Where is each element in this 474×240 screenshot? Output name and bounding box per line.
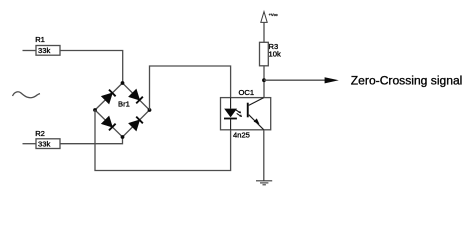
bridge diode D3 bottom-left (left node to bottom node) xyxy=(102,116,116,130)
OC1 LED cathode bar xyxy=(224,118,237,120)
svg-text:33k: 33k xyxy=(38,46,50,55)
power supply +Vcc symbol xyxy=(261,12,278,23)
OC1 LED cathode lead inside box xyxy=(230,119,232,130)
wire R3 to OC1 collector through junction xyxy=(263,66,265,98)
bridge diode D2 top-right (top node to right node) xyxy=(129,89,143,103)
bridge rectifier Br1 diamond wires xyxy=(95,83,150,137)
resistor R2 xyxy=(35,129,60,149)
bridge diode D1 top-left (left node to top node) xyxy=(102,90,116,104)
wire OC1 emitter to ground xyxy=(263,130,265,181)
svg-text:OC1: OC1 xyxy=(239,88,255,97)
svg-text:Zero-Crossing signal: Zero-Crossing signal xyxy=(351,74,463,88)
svg-text:R2: R2 xyxy=(35,129,45,138)
OC1 LED anode lead inside box xyxy=(230,98,232,109)
wire +Vcc to R3 xyxy=(263,22,265,42)
node dot bridge top xyxy=(121,81,125,85)
node dot bridge left xyxy=(93,108,97,112)
resistor R1 xyxy=(35,35,60,55)
OC1 phototransistor collector lead xyxy=(249,98,264,106)
OC1 emitter arrowhead xyxy=(254,118,260,124)
OC1 LED triangle xyxy=(224,109,237,118)
node dot bridge bottom xyxy=(121,135,125,139)
OC1 light emission arrow 1 xyxy=(236,110,241,114)
svg-text:R1: R1 xyxy=(35,35,45,44)
svg-text:Br1: Br1 xyxy=(118,100,130,109)
AC source V1 tilde symbol xyxy=(13,92,41,98)
ground symbol xyxy=(256,181,272,185)
OC1 phototransistor base bar xyxy=(247,103,249,118)
optocoupler OC1 body box xyxy=(221,98,271,130)
wire R1 to bridge top node xyxy=(60,51,123,84)
resistor R3 xyxy=(260,42,281,66)
node dot bridge right xyxy=(148,108,152,112)
wire R2 to bridge bottom node xyxy=(60,137,123,144)
bridge diode D4 bottom-right (bottom node to right node) xyxy=(129,117,143,131)
svg-text:4n25: 4n25 xyxy=(233,131,250,140)
wire R2 left lead xyxy=(23,143,37,145)
OC1 light emission arrow 2 xyxy=(237,113,242,117)
junction node dot output xyxy=(262,78,266,82)
svg-text:10k: 10k xyxy=(269,49,281,58)
svg-text:+Vcc: +Vcc xyxy=(269,12,278,17)
wire bridge right node to OC1 LED anode xyxy=(150,66,231,110)
wire bridge left node to OC1 LED cathode (bottom return) xyxy=(95,110,231,171)
wire junction to output arrow xyxy=(264,79,326,81)
OC1 phototransistor emitter lead xyxy=(249,115,264,130)
output arrowhead xyxy=(325,77,339,83)
svg-text:33k: 33k xyxy=(38,140,50,149)
wire R1 left lead xyxy=(23,50,37,52)
